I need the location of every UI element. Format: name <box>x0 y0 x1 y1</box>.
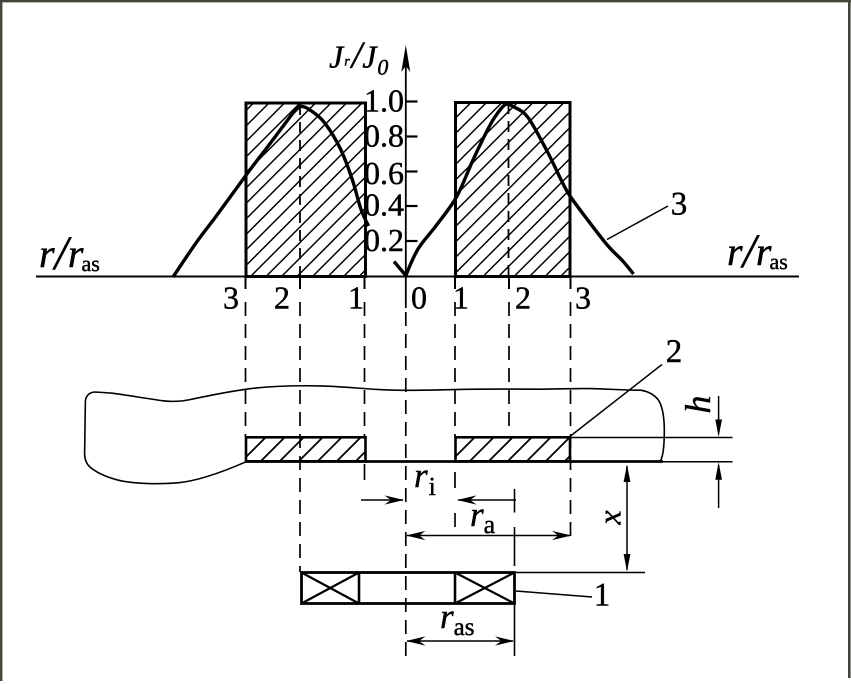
svg-text:ra: ra <box>470 495 496 539</box>
coil right box X <box>455 573 515 604</box>
coil left box X <box>302 573 360 604</box>
leader line to label 2 <box>571 365 663 437</box>
x tick mark left 2 <box>299 277 301 290</box>
x-axis <box>36 276 799 278</box>
x dim bottom arrowhead <box>624 554 631 572</box>
y tick 0.6 <box>406 170 418 172</box>
r_i dimension left tail + arrow <box>361 499 403 501</box>
r_i dimension right tail + arrow <box>458 499 516 501</box>
svg-text:1.0: 1.0 <box>364 83 404 119</box>
dash of guide line right 1 below sheet <box>454 472 456 488</box>
curve 3 right branch <box>394 104 634 275</box>
dash of guide line left 1 below sheet <box>364 464 366 480</box>
svg-text:3: 3 <box>671 187 688 223</box>
x dim top arrowhead <box>624 465 631 483</box>
r_as extension line lower segment <box>514 601 516 656</box>
h dimension bottom arrow <box>718 465 720 508</box>
x tick mark left 1 <box>364 277 366 290</box>
svg-text:1: 1 <box>594 578 611 614</box>
r_as left arrowhead <box>406 636 426 645</box>
svg-text:h: h <box>678 396 718 414</box>
sheet bottom line (thick) <box>246 460 663 463</box>
centre dashed line (r = 0) <box>405 312 407 656</box>
page frame left border <box>0 0 2 681</box>
page frame right border <box>848 0 851 678</box>
page frame top border <box>0 0 851 2</box>
coil right box X second diagonal <box>455 573 515 604</box>
svg-text:Jr/J0: Jr/J0 <box>329 35 388 80</box>
dashed guide line right 2 <box>508 302 510 434</box>
svg-text:r/ras: r/ras <box>39 227 100 280</box>
dashed guide line right 3 <box>570 302 572 541</box>
x tick mark left 3 <box>245 277 247 290</box>
svg-text:2: 2 <box>274 280 290 316</box>
r_a left arrowhead <box>406 531 426 540</box>
r_as extension line middle segment <box>514 527 516 566</box>
dashed guide line right 1 <box>454 302 456 437</box>
h top arrowhead <box>715 420 722 438</box>
svg-text:0.4: 0.4 <box>364 187 404 223</box>
x tick mark right 3 <box>570 277 572 290</box>
svg-text:2: 2 <box>515 280 531 316</box>
workpiece sheet outline (wavy top + torn left end + rounded right end) <box>85 386 665 484</box>
dashed guide line left 1 <box>364 302 366 437</box>
leader line to curve label 3 <box>607 206 668 240</box>
y tick 0.4 <box>406 205 418 207</box>
r_as dimension line with outward arrows <box>407 640 513 642</box>
r_i left arrowhead <box>385 495 405 504</box>
coil top extension line (for x dimension) <box>516 572 645 574</box>
y-axis <box>405 60 407 277</box>
y tick 1.0 <box>406 100 418 102</box>
right hatched rectangle <box>456 103 571 277</box>
heated-layer top extension line (thin, for h) <box>572 437 733 439</box>
leader line to label 1 <box>516 591 592 597</box>
h bottom arrowhead <box>715 462 722 480</box>
curve 3 left branch <box>173 106 369 277</box>
left hatched rectangle <box>246 103 366 277</box>
svg-text:0: 0 <box>411 280 427 316</box>
svg-text:x: x <box>592 510 628 525</box>
r_a right arrowhead <box>552 531 572 540</box>
x dimension double arrow <box>626 466 628 570</box>
svg-text:3: 3 <box>575 280 591 316</box>
y-axis arrowhead <box>401 45 410 72</box>
coil right box inner edge <box>454 573 457 604</box>
coil left box inner edge <box>358 573 361 604</box>
svg-text:3: 3 <box>223 280 239 316</box>
inductor coil outer rectangle <box>302 573 515 604</box>
x tick mark right 2 <box>508 277 510 290</box>
y tick 0.2 <box>406 240 418 242</box>
svg-text:0.8: 0.8 <box>364 118 404 154</box>
left heated zone (hatched) <box>246 437 366 461</box>
svg-text:r/ras: r/ras <box>727 225 788 278</box>
r_i right arrowhead <box>457 495 477 504</box>
dashed centre of right rect <box>508 103 510 276</box>
svg-text:2: 2 <box>666 334 683 370</box>
x tick mark right 1 <box>454 277 456 290</box>
dashed guide line left 3 <box>245 302 247 437</box>
svg-text:0.2: 0.2 <box>364 222 404 258</box>
dashed centre of left rect <box>299 104 301 276</box>
r_as right arrowhead <box>495 636 515 645</box>
r_as right extension line segments (x=514.5) <box>514 489 516 513</box>
y tick 0.8 <box>406 135 418 137</box>
coil left box X second diagonal <box>302 573 360 604</box>
dashed guide line left 2 <box>299 302 301 572</box>
right heated zone (hatched) <box>456 437 571 461</box>
sheet bottom extension line (thin, for h) <box>663 461 733 463</box>
center axis continuation <box>405 277 407 309</box>
svg-text:1: 1 <box>348 280 364 316</box>
h dimension top arrow <box>718 396 720 434</box>
r_a dimension line with outward arrows <box>407 535 570 537</box>
second dash of guide line right 1 <box>454 513 456 527</box>
